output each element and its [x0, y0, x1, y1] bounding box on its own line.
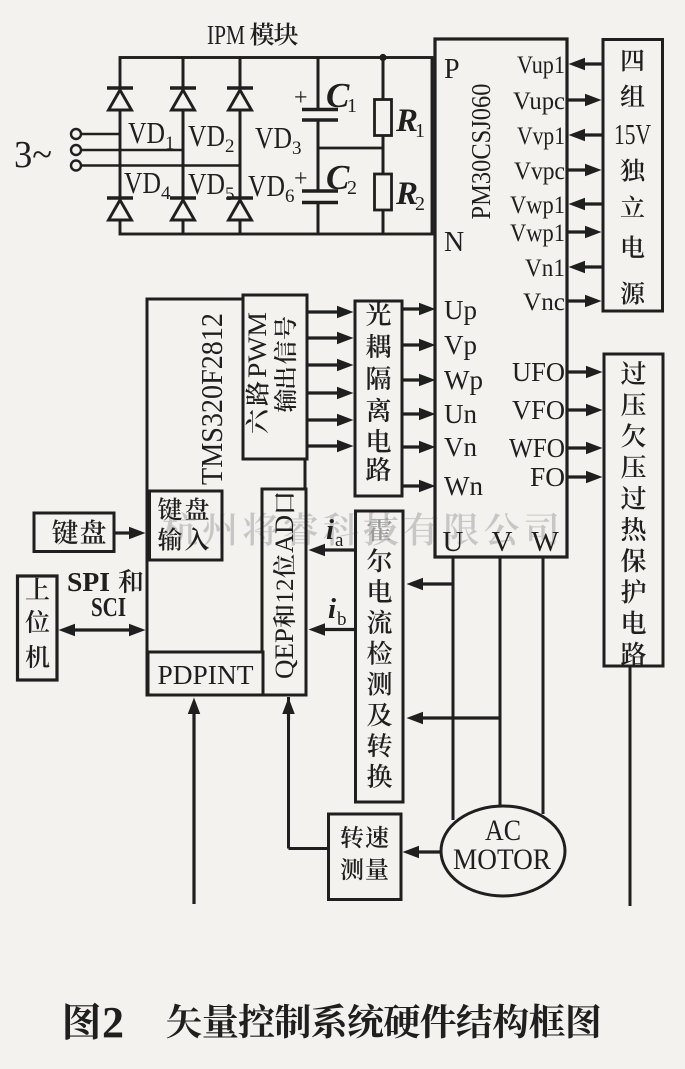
- wire phase W to motor: [542, 557, 545, 814]
- wire PWM signal 3: [307, 359, 354, 372]
- svg-text:4: 4: [161, 183, 171, 204]
- pin Up: [444, 295, 477, 325]
- label SPI and SCI: [67, 567, 143, 622]
- svg-text:+: +: [294, 166, 308, 192]
- wire motor to speed measurement: [403, 846, 442, 859]
- pin Vnc row 8: [523, 289, 565, 316]
- svg-text:1: 1: [415, 120, 425, 142]
- svg-text:VFO: VFO: [512, 395, 565, 425]
- pin Vwp1 row 5: [510, 192, 565, 219]
- svg-text:5: 5: [225, 184, 235, 205]
- IPM block PM30CSJ060 U1: [435, 39, 567, 557]
- block keyboard 键盘: [34, 513, 114, 552]
- svg-text:b: b: [337, 609, 347, 630]
- diode VD1: [107, 88, 133, 110]
- svg-text:2: 2: [225, 136, 235, 157]
- wire current ia: [309, 544, 357, 557]
- wire PDPINT input: [188, 698, 201, 905]
- wire PWM signal 1: [307, 306, 354, 319]
- svg-text:Vvpc: Vvpc: [514, 158, 565, 185]
- block QEP and 12-bit AD port: [262, 489, 306, 695]
- pin W: [531, 526, 559, 558]
- resistor R1: [375, 100, 426, 143]
- node phase terminal 3: [71, 161, 81, 171]
- svg-text:VD: VD: [188, 166, 225, 201]
- svg-text:i: i: [328, 593, 336, 625]
- svg-text:Vup1: Vup1: [517, 52, 565, 79]
- label ib: [328, 593, 347, 630]
- pin V: [492, 526, 513, 558]
- svg-text:3: 3: [292, 138, 302, 159]
- wire R1-R2: [382, 136, 385, 175]
- wire C1-C2 junction: [317, 121, 320, 190]
- wire gate signal 6: [402, 480, 436, 493]
- svg-text:Wn: Wn: [444, 471, 483, 501]
- svg-text:2: 2: [102, 998, 124, 1047]
- wire PWM signal 2: [307, 332, 354, 345]
- block six-channel PWM output signals: [243, 295, 307, 459]
- svg-text:Vn1: Vn1: [525, 255, 565, 282]
- label 四组15V独立电源: [614, 50, 651, 305]
- pin P: [444, 54, 460, 85]
- label 六路PWM输出信号: [243, 312, 296, 433]
- label 3-phase source: [14, 134, 52, 176]
- wire capacitor branch top: [317, 58, 320, 109]
- svg-text:MOTOR: MOTOR: [453, 843, 551, 876]
- svg-text:Up: Up: [444, 295, 477, 325]
- wire rectifier bridge outline: [120, 58, 432, 235]
- wire mid rail: [318, 147, 383, 150]
- wire resistor branch top: [379, 54, 386, 100]
- block four-group 15V isolated power supply: [603, 40, 663, 312]
- label QEP和12位AD口: [270, 493, 299, 679]
- label 过压欠压过热保护电路: [621, 361, 646, 666]
- pin Vup1 row 1: [517, 52, 565, 79]
- pin FO: [530, 462, 565, 492]
- pin Vupc row 2: [513, 88, 565, 115]
- svg-text:1: 1: [347, 95, 357, 117]
- wire arrow Vwp1 to power supply: [567, 226, 602, 239]
- svg-text:QEP: QEP: [270, 628, 299, 679]
- pin Vn: [444, 432, 477, 462]
- wire gate signal 3: [402, 374, 436, 387]
- block speed measurement 转速测量: [329, 814, 402, 900]
- wire arrow U to Hall: [407, 578, 454, 591]
- svg-text:PM30CSJ060: PM30CSJ060: [466, 84, 496, 220]
- svg-text:VD: VD: [124, 165, 161, 200]
- block host computer 上位机: [18, 576, 58, 680]
- svg-text:2: 2: [415, 193, 425, 215]
- diode VD6: [227, 198, 253, 220]
- svg-text:PDPINT: PDPINT: [158, 660, 255, 690]
- pin U: [443, 526, 464, 558]
- motor AC MOTOR: [441, 806, 565, 896]
- caption figure 2: [65, 998, 599, 1047]
- svg-text:UFO: UFO: [512, 357, 565, 387]
- wire phase 3: [82, 164, 241, 167]
- wire PWM signal 4: [307, 387, 354, 400]
- wire current ib: [309, 623, 357, 636]
- label VD5: [188, 166, 235, 205]
- wire arrow VFO to protection: [567, 404, 603, 417]
- wire phase 1: [82, 133, 121, 136]
- pin Vp: [444, 330, 477, 360]
- IPM module title: [207, 20, 298, 50]
- svg-text:VD: VD: [248, 168, 285, 203]
- pin N: [444, 227, 464, 258]
- wire gate signal 4: [402, 408, 436, 421]
- block Hall current detection and conversion: [356, 511, 404, 802]
- block PDPINT: [148, 652, 263, 695]
- pin VFO: [512, 395, 565, 425]
- wire arrow FO to protection: [567, 471, 603, 484]
- svg-text:PWM: PWM: [243, 312, 272, 378]
- svg-text:Vn: Vn: [444, 432, 477, 462]
- wire arrow Vwp1 from power supply: [569, 198, 604, 211]
- label ia: [326, 514, 344, 551]
- wire SPI/SCI bidirectional arrow: [59, 624, 146, 637]
- wire arrow V to Hall: [407, 712, 501, 725]
- label PDPINT: [158, 660, 255, 690]
- svg-text:a: a: [335, 530, 344, 551]
- capacitor C1: [294, 76, 357, 120]
- watermark 杭州将睿科技有限公司: [163, 512, 557, 546]
- wire arrow UFO to protection: [567, 366, 603, 379]
- svg-text:Vupc: Vupc: [513, 88, 565, 115]
- svg-text:Vwp1: Vwp1: [510, 192, 565, 219]
- label VD3: [255, 120, 302, 159]
- svg-text:P: P: [444, 54, 460, 85]
- wire arrow Vn1 from power supply: [569, 261, 604, 274]
- wire arrow Vup1 from power supply: [569, 58, 604, 71]
- svg-text:IPM: IPM: [207, 20, 245, 50]
- pin Un: [444, 399, 477, 429]
- wire gate signal 2: [402, 339, 436, 352]
- svg-text:Vnc: Vnc: [523, 289, 565, 316]
- label VD2: [188, 118, 235, 157]
- svg-text:Un: Un: [444, 399, 477, 429]
- label 霍尔电流检测及转换: [367, 517, 392, 788]
- label 键盘输入: [158, 497, 209, 550]
- pin Vwp1 row 6: [510, 220, 565, 247]
- svg-text:VD: VD: [188, 118, 225, 153]
- pin Wp: [444, 365, 483, 395]
- diode VD4: [107, 198, 133, 220]
- block overvoltage protection circuit: [604, 354, 663, 666]
- wire bridge leg 2: [182, 58, 185, 235]
- svg-text:N: N: [444, 227, 464, 258]
- label TMS320F2812: [194, 313, 229, 485]
- wire PWM signal 6: [307, 440, 354, 453]
- wire protection output: [629, 666, 632, 906]
- wire bridge leg 3: [239, 58, 242, 235]
- pin WFO: [509, 433, 565, 463]
- diode VD5: [170, 198, 196, 220]
- label VD6: [248, 168, 295, 207]
- diode VD2: [170, 88, 196, 110]
- wire gate signal 5: [402, 441, 436, 454]
- svg-text:VD: VD: [255, 120, 292, 155]
- wire phase V to motor: [499, 557, 502, 807]
- wire capacitor branch bottom: [317, 203, 320, 234]
- svg-text:2: 2: [347, 177, 357, 199]
- node phase terminal 1: [71, 129, 81, 139]
- label PM30CSJ060: [466, 84, 496, 220]
- block keyboard input port: [150, 491, 223, 560]
- node phase terminal 2: [71, 145, 81, 155]
- label VD1: [128, 115, 175, 154]
- wire gate signal 1: [402, 303, 436, 316]
- pin Vn1 row 7: [525, 255, 565, 282]
- svg-text:FO: FO: [530, 462, 565, 492]
- label VD4: [124, 165, 171, 204]
- resistor R2: [375, 174, 426, 215]
- wire arrow WFO to protection: [567, 442, 603, 455]
- wire arrow Vupc to power supply: [567, 94, 602, 107]
- svg-text:SCI: SCI: [91, 592, 126, 622]
- wire arrow Vnc to power supply: [567, 295, 602, 308]
- svg-text:Vwp1: Vwp1: [510, 220, 565, 247]
- pin UFO: [512, 357, 565, 387]
- svg-text:VD: VD: [128, 115, 165, 150]
- pin Vvp1 row 3: [517, 123, 565, 150]
- pin Wn: [444, 471, 483, 501]
- wire arrow Vvpc to power supply: [567, 164, 602, 177]
- diode VD3: [227, 88, 253, 110]
- svg-text:12: 12: [272, 579, 299, 604]
- wire PWM signal 5: [307, 414, 354, 427]
- svg-text:+: +: [294, 85, 308, 111]
- wire arrow Vvp1 from power supply: [569, 129, 604, 142]
- svg-text:15V: 15V: [614, 120, 651, 151]
- capacitor C2: [294, 158, 357, 203]
- wire phase 2: [82, 149, 184, 152]
- label 光耦隔离电路: [366, 302, 391, 481]
- pin Vvpc row 4: [514, 158, 565, 185]
- wire resistor branch bottom: [382, 210, 385, 234]
- DSP block TMS320F2812: [147, 299, 305, 695]
- svg-text:Vvp1: Vvp1: [517, 123, 565, 150]
- svg-text:TMS320F2812: TMS320F2812: [194, 313, 229, 485]
- svg-text:Vp: Vp: [444, 330, 477, 360]
- wire speed to QEP: [282, 697, 328, 849]
- svg-text:3~: 3~: [14, 134, 52, 176]
- svg-text:Wp: Wp: [444, 365, 483, 395]
- wire keyboard arrow: [114, 527, 146, 540]
- block optocoupler isolation circuit: [355, 301, 402, 496]
- wire phase U to motor: [452, 557, 455, 820]
- svg-text:WFO: WFO: [509, 433, 565, 463]
